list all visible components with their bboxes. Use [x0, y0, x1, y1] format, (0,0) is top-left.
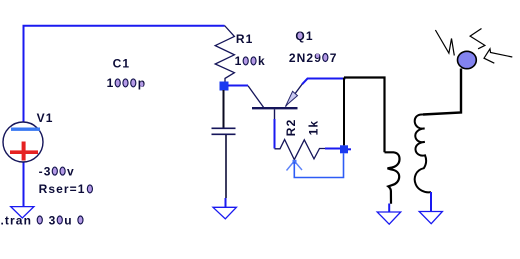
- wire stub right of square: [348, 148, 351, 150]
- wiper dot: [293, 160, 297, 164]
- resistor R2 (pot): [275, 140, 326, 160]
- ground under C1: [213, 207, 236, 219]
- ball electrode lead: [423, 69, 461, 115]
- ground under secondary coil: [419, 212, 442, 224]
- wire base down to R2: [274, 119, 276, 149]
- Q1 emitter arrow: [286, 91, 298, 106]
- svg-text:100k: 100k: [235, 54, 266, 68]
- lavender zero ovals: [37, 54, 328, 225]
- resistor R1: [215, 26, 234, 83]
- svg-text:R1: R1: [236, 32, 254, 46]
- voltage source V1: [3, 122, 43, 162]
- svg-text:Rser=10: Rser=10: [39, 182, 94, 196]
- primary coil L1: [385, 152, 400, 204]
- ball electrode: [458, 51, 477, 68]
- svg-text:R2: R2: [284, 119, 298, 137]
- black wire from rail down to R2 junction: [343, 78, 345, 146]
- wire R2 right lead to junction: [325, 148, 340, 150]
- junction node square under R1: [220, 82, 229, 91]
- svg-text:2N2907: 2N2907: [289, 51, 338, 65]
- wire top rail V1 to R1: [24, 26, 225, 122]
- spark stroke top: [470, 29, 485, 49]
- black rail to primary coil: [344, 78, 385, 153]
- stub secondary coil to ground: [430, 192, 432, 211]
- wire junction to transistor base area: [228, 85, 248, 87]
- wiper arrow of R2: [287, 161, 303, 171]
- junction node square right of R2: [340, 145, 348, 153]
- spark stroke right: [484, 49, 512, 63]
- secondary coil L2: [415, 114, 431, 192]
- wiper wire down and right to junction: [294, 153, 343, 177]
- ground under primary coil: [377, 212, 401, 224]
- wire junction down to C1: [223, 90, 225, 128]
- Q1 collector diagonal: [248, 86, 264, 107]
- plus annotation on V1: [10, 142, 38, 161]
- svg-text:1k: 1k: [306, 120, 320, 136]
- svg-text:V1: V1: [37, 111, 54, 125]
- capacitor C1: [212, 128, 236, 134]
- Q1 base pin: [274, 109, 276, 119]
- wire C1 to ground: [225, 135, 227, 198]
- wire emitter to top rail: [302, 79, 346, 85]
- lavender counters (p, Q, 9): [140, 32, 319, 87]
- minus annotation on V1: [11, 128, 40, 131]
- stub primary coil to ground: [388, 204, 390, 212]
- wire V1 bottom to ground: [23, 162, 25, 207]
- transistor Q1 body bar: [252, 107, 298, 109]
- Q1 emitter diagonal: [285, 84, 302, 106]
- spark stroke left: [435, 30, 454, 56]
- ground under V1: [11, 207, 34, 218]
- svg-text:C1: C1: [113, 57, 131, 71]
